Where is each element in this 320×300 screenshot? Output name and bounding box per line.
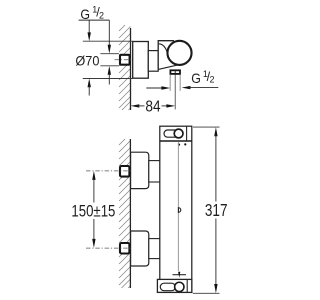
svg-text:84: 84 [145, 98, 161, 115]
svg-text:150±15: 150±15 [71, 202, 115, 220]
svg-text:G: G [80, 6, 90, 22]
svg-text:G: G [191, 70, 201, 86]
svg-text:2: 2 [210, 74, 215, 84]
svg-text:2: 2 [99, 11, 104, 21]
svg-text:Ø70: Ø70 [75, 53, 99, 69]
svg-text:317: 317 [205, 200, 228, 220]
